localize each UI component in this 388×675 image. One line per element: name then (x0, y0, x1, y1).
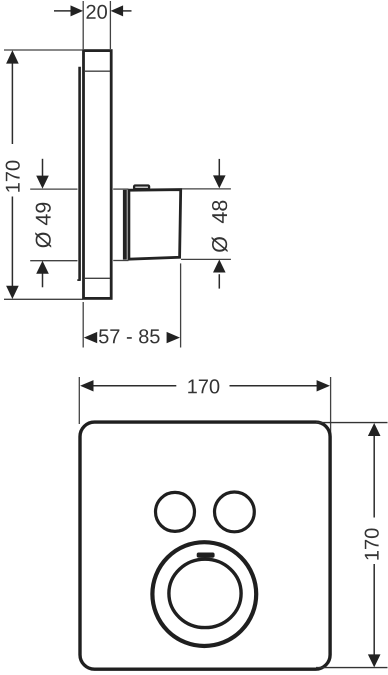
wall line bottom nub (77, 279, 80, 281)
dim 170 left: arrows (6, 50, 19, 63)
joint line top (85, 70, 110, 72)
dim 170 top: text (188, 379, 219, 393)
dim 20: extension lines (83, 1, 110, 49)
knob tab (198, 554, 213, 557)
dim 170 right: arrows (368, 423, 381, 436)
dia49/48 extension lines top (30, 189, 231, 261)
dim 170 top: arrows (80, 380, 93, 391)
joint line bottom (85, 277, 110, 279)
dim 20: text (86, 5, 107, 19)
dim dia48: shaft (218, 159, 220, 289)
dim 20: tails (54, 10, 132, 12)
knob body (side) (129, 190, 181, 260)
dim 57-85: arrows (84, 332, 97, 343)
knob inner circle (169, 559, 241, 627)
dim 57-85: extension lines (83, 263, 180, 347)
button circle left (156, 492, 195, 531)
dim 170 top: extension lines (79, 377, 330, 437)
dim dia49: text (35, 203, 51, 248)
dim 170 left: text (rotated) (6, 161, 20, 192)
dim 170 right: shaft (373, 435, 375, 655)
button circle right (215, 492, 255, 532)
knob outer circle (152, 542, 256, 646)
knob clip (134, 186, 149, 189)
dim dia49: arrows (36, 176, 49, 189)
dim dia48: arrows (213, 175, 226, 188)
side plate body (84, 51, 112, 299)
dim dia48: text (212, 201, 228, 253)
front plate (80, 422, 330, 669)
knob back collar (123, 190, 127, 260)
dim 170 left: shaft (11, 63, 13, 287)
dim dia49: shaft (42, 159, 44, 287)
dim 170 right: text (rotated) (365, 528, 379, 559)
dim 170 left: extension lines (4, 50, 83, 299)
dim 170 top: line (93, 385, 318, 387)
dim 170 right: extension lines (316, 423, 388, 668)
dim 20: arrows (71, 5, 84, 16)
dim 57-85: text (99, 329, 160, 343)
wall line (78, 67, 81, 281)
